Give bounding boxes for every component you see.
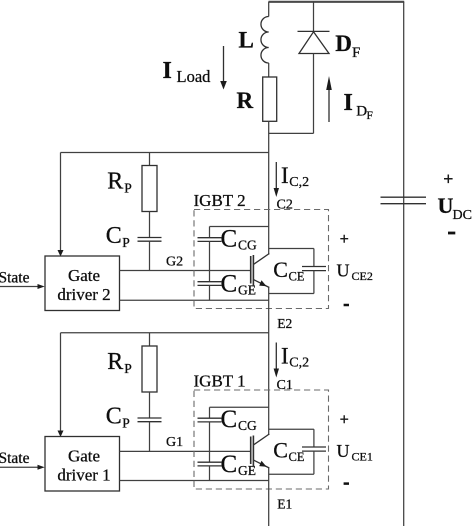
wire gate node vertical (lower) — [209, 422, 211, 462]
svg-text:C: C — [221, 271, 238, 298]
svg-text:E1: E1 — [277, 497, 292, 512]
svg-text:I: I — [281, 344, 289, 369]
wire L to R — [268, 63, 270, 77]
wire emitter return (upper) — [120, 299, 269, 301]
svg-text:R: R — [107, 169, 123, 195]
inductor L — [261, 17, 269, 64]
wire State input arrow (lower) — [0, 466, 39, 468]
capacitor C_GE (upper) — [198, 281, 222, 283]
svg-text:C1: C1 — [277, 378, 293, 393]
svg-text:I: I — [344, 90, 353, 116]
wire main branch top — [268, 2, 270, 17]
resistor R_P (upper) — [142, 166, 157, 212]
wire feedback top (upper) — [61, 152, 269, 154]
svg-text:State: State — [0, 450, 30, 467]
current arrow I_Load — [223, 46, 225, 82]
resistor R_P (lower) — [142, 346, 157, 392]
svg-text:U: U — [337, 261, 350, 281]
minus sign U_CE2 — [344, 304, 349, 307]
minus sign U_CE1 — [344, 482, 349, 485]
svg-text:U: U — [438, 193, 454, 218]
svg-text:CG: CG — [238, 418, 257, 433]
svg-text:I: I — [281, 163, 289, 188]
svg-text:CG: CG — [238, 238, 257, 253]
wire State input arrow (upper) — [0, 286, 39, 288]
minus sign U_DC — [448, 232, 455, 235]
wire into driver 1 — [60, 333, 62, 432]
wire R_P to C_P (lower) — [149, 392, 151, 418]
svg-text:IGBT 2: IGBT 2 — [194, 191, 246, 210]
wire R_P to C_P (upper) — [149, 212, 151, 238]
svg-text:L: L — [239, 28, 254, 53]
wire top rail — [269, 1, 405, 3]
svg-text:C: C — [221, 451, 238, 478]
capacitor C_P (lower) — [138, 417, 162, 419]
wire C_GE to emitter wire (upper) — [209, 285, 211, 300]
dashed module box IGBT 2 — [194, 210, 329, 309]
svg-text:Gate: Gate — [68, 266, 100, 285]
wire feedback top (lower) — [61, 332, 269, 334]
svg-text:F: F — [352, 45, 360, 61]
svg-text:Load: Load — [177, 67, 212, 86]
wire C_GE to emitter wire (lower) — [209, 466, 211, 481]
capacitor C_CG (lower) — [198, 417, 222, 419]
svg-text:State: State — [0, 270, 30, 287]
svg-text:C,2: C,2 — [289, 356, 309, 371]
capacitor U_DC plates — [381, 196, 427, 198]
svg-text:P: P — [122, 416, 130, 431]
current arrow I_C,2 (lower) — [275, 343, 277, 370]
plus sign U_DC — [444, 175, 453, 184]
wire diode branch top — [313, 2, 315, 32]
wire emitter return (lower) — [120, 480, 269, 482]
capacitor C_GE (lower) — [198, 461, 222, 463]
diode D_F — [298, 30, 330, 32]
wire collector link (upper) — [210, 226, 269, 228]
capacitor C_P (upper) — [138, 237, 162, 239]
svg-text:driver 2: driver 2 — [57, 285, 110, 304]
svg-text:P: P — [124, 181, 132, 196]
svg-text:I: I — [163, 58, 172, 84]
capacitor C_CG (upper) — [198, 237, 222, 239]
svg-text:C,2: C,2 — [289, 175, 309, 190]
svg-text:R: R — [237, 88, 254, 113]
wire gate node vertical (upper) — [209, 241, 211, 281]
svg-text:P: P — [122, 235, 130, 250]
svg-text:CE: CE — [289, 270, 305, 284]
svg-text:F: F — [367, 110, 373, 122]
wire main bottom section — [268, 468, 270, 526]
svg-text:driver 1: driver 1 — [57, 465, 110, 484]
wire R to node — [268, 121, 270, 254]
svg-text:C: C — [273, 438, 288, 463]
svg-text:CE1: CE1 — [352, 450, 373, 464]
svg-text:E2: E2 — [277, 316, 292, 331]
wire main mid section — [268, 288, 270, 436]
svg-text:P: P — [124, 361, 132, 376]
svg-text:C: C — [221, 406, 238, 433]
current arrow I_DF — [328, 88, 330, 122]
svg-text:G2: G2 — [166, 255, 183, 270]
svg-text:C: C — [221, 226, 238, 253]
plus sign U_CE2 — [340, 235, 348, 243]
wire collector to C_CG (upper) — [209, 227, 211, 238]
gate driver U1 box — [45, 437, 120, 492]
wire to R_P (lower) — [149, 333, 151, 346]
transistor IGBT1 symbol — [250, 437, 252, 465]
svg-text:G1: G1 — [166, 435, 183, 450]
right DC rail — [403, 2, 405, 526]
plus sign U_CE1 — [340, 415, 348, 423]
svg-text:C: C — [106, 223, 122, 249]
svg-text:CE: CE — [289, 450, 305, 464]
svg-text:DC: DC — [453, 208, 472, 223]
wire into driver 2 — [60, 153, 62, 252]
gate driver U2 box — [45, 256, 120, 311]
capacitor C_CE (upper) — [269, 248, 314, 250]
wire to R_P (upper) — [149, 153, 151, 166]
wire gate net G1 — [120, 450, 251, 452]
svg-text:C2: C2 — [277, 198, 293, 213]
svg-text:CE2: CE2 — [352, 269, 373, 283]
wire C_P to gate wire (upper) — [149, 241, 151, 270]
svg-text:D: D — [335, 31, 352, 56]
wire diode to bottom loop — [313, 54, 315, 134]
transistor IGBT2 symbol — [250, 256, 252, 284]
svg-text:C: C — [273, 257, 288, 282]
resistor R — [263, 77, 277, 121]
svg-text:Gate: Gate — [68, 447, 100, 466]
svg-text:U: U — [337, 441, 350, 461]
wire gate net G2 — [120, 270, 251, 272]
svg-text:IGBT 1: IGBT 1 — [194, 372, 246, 391]
current arrow I_C,2 (upper) — [275, 162, 277, 189]
capacitor C_CE (lower) — [269, 428, 314, 430]
dashed module box IGBT 1 — [194, 390, 329, 489]
wire loop bottom — [269, 132, 314, 134]
wire C_P to gate wire (lower) — [149, 422, 151, 452]
svg-text:C: C — [106, 404, 122, 430]
svg-text:R: R — [107, 349, 123, 375]
wire collector to C_CG (lower) — [209, 407, 211, 418]
wire collector link (lower) — [210, 406, 269, 408]
